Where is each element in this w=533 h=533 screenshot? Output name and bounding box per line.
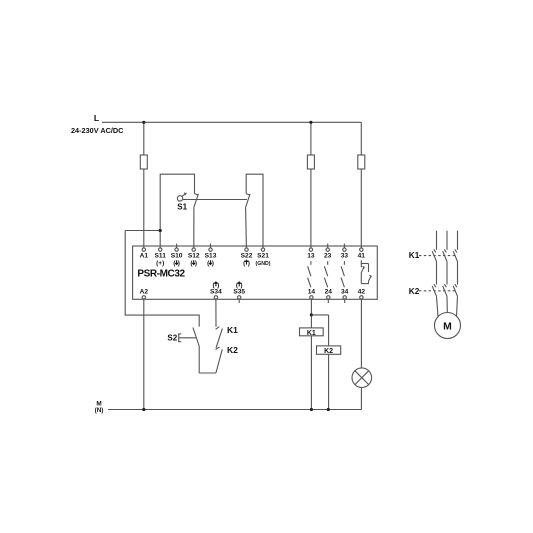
terminal 13 (309, 248, 312, 251)
switch S2 (reset button, NO) (193, 328, 199, 374)
node L (supply rail) (102, 121, 361, 123)
wire 41 supply drop (360, 122, 362, 248)
pin label S22 (up) (241, 252, 253, 267)
svg-text:): ) (178, 260, 180, 267)
svg-text:41: 41 (358, 252, 366, 259)
stub 24 bottom (327, 299, 329, 303)
pin label S35 (up) (233, 282, 245, 296)
pin label S21 (GND) (256, 252, 271, 267)
motor branch phase 1 middle (436, 262, 438, 285)
coil K2 (317, 346, 341, 355)
terminal S11 (159, 248, 162, 251)
svg-text:S11: S11 (155, 252, 167, 259)
svg-text:K1: K1 (227, 325, 238, 335)
motor branch phase 2 middle (446, 262, 448, 285)
svg-text:14: 14 (308, 289, 316, 296)
wire 13 supply drop (310, 122, 312, 248)
svg-text:): ) (195, 260, 197, 267)
internal contact 33-34 (341, 261, 344, 287)
terminal 34 (343, 296, 346, 299)
svg-text:13: 13 (307, 252, 315, 259)
terminal 41 (360, 248, 363, 251)
svg-text:(+): (+) (156, 260, 164, 267)
fuse F2 (13 branch) (307, 155, 314, 169)
switch S1 contact a (key operated, to S12) (194, 194, 199, 248)
lamp H1 (indicator) (352, 368, 372, 388)
svg-text:S35: S35 (233, 289, 245, 296)
terminal S34 (214, 296, 217, 299)
mechanical link K1 dashed (419, 255, 456, 257)
motor M1 (435, 313, 461, 339)
wire S11 loop to S1 contact a (160, 174, 194, 248)
relay box PSR-MC32 (133, 246, 378, 299)
motor feed phase 2 lower (446, 296, 448, 312)
switch S1 contact b (key operated, to S22) (246, 194, 251, 248)
wire S21 loop to S1 contact b (246, 174, 263, 248)
motor branch phase 3 upper (457, 231, 459, 250)
mechanical link S1 to contacts (183, 199, 247, 201)
stub 34 bottom (344, 299, 346, 303)
node N label M (N) (95, 401, 104, 415)
svg-text:S13: S13 (205, 252, 217, 259)
wire 14 to N rail (310, 299, 312, 410)
mechanical link K2 dashed (419, 290, 456, 292)
terminal 24 (327, 296, 330, 299)
junction on L rail at 13 wire (309, 121, 312, 124)
wire A1 supply drop (143, 122, 145, 248)
svg-text:24-230V AC/DC: 24-230V AC/DC (71, 126, 124, 135)
coil K1 (300, 328, 324, 337)
internal contact 41-42 (NC feedback, double break) (361, 260, 371, 283)
motor branch phase 3 middle (457, 262, 459, 285)
stub 33 top (343, 244, 345, 248)
pin label S13 (down) (205, 252, 217, 267)
contact K1 feedback (NC in series) (216, 327, 223, 348)
contact K2 feedback (NC in series) (216, 347, 223, 373)
contact K1 main pole 2 (443, 249, 447, 261)
internal contact 23-24 (324, 261, 327, 287)
wire S11 junction to reset branch (125, 231, 199, 327)
terminal S10 (175, 248, 178, 251)
fuse F3 (41 branch) (358, 155, 365, 169)
motor branch phase 2 upper (446, 231, 448, 250)
node N rail (M/N return) (108, 409, 361, 411)
wire A2 to N rail (143, 299, 145, 410)
pin label S11 (+) (155, 252, 167, 267)
junction on S11 wire (159, 229, 162, 232)
junction on L rail at A1 wire (142, 121, 145, 124)
terminal S35 (238, 296, 241, 299)
svg-text:L: L (94, 113, 99, 123)
key actuator S1 symbol (177, 193, 186, 201)
terminal 23 (326, 248, 329, 251)
svg-text:K1: K1 (307, 330, 316, 337)
svg-text:S22: S22 (241, 252, 253, 259)
stub S10 (176, 244, 178, 248)
junction N rail at A2 (142, 408, 145, 411)
wire lamp to N rail (360, 388, 362, 410)
wire feedback chain to S34 (215, 299, 217, 327)
svg-text:(N): (N) (95, 407, 104, 414)
svg-text:23: 23 (324, 252, 332, 259)
terminal S21 (261, 248, 264, 251)
contact K2 main pole 2 (443, 284, 447, 296)
wire 42 to lamp (360, 299, 362, 368)
motor feed phase 1 lower (437, 296, 439, 316)
wire S2 to feedback contacts (199, 372, 216, 374)
contact K2 main pole 1 (432, 284, 436, 296)
terminal 14 (310, 296, 313, 299)
svg-text:): ) (212, 260, 214, 267)
svg-text:(GND): (GND) (256, 261, 271, 267)
motor branch phase 1 upper (436, 231, 438, 250)
svg-text:S1: S1 (177, 203, 187, 212)
svg-text:S10: S10 (171, 252, 183, 259)
pin label S12 (down) (188, 252, 200, 267)
terminal S22 (245, 248, 248, 251)
pin label S34 (up) (210, 282, 222, 296)
stub S35 (238, 299, 240, 303)
svg-text:42: 42 (358, 289, 366, 296)
svg-text:S34: S34 (210, 289, 222, 296)
svg-text:PSR-MC32: PSR-MC32 (137, 268, 185, 279)
terminal S13 (209, 248, 212, 251)
terminal A2 (142, 296, 145, 299)
terminal A1 (142, 248, 145, 251)
svg-text:33: 33 (341, 252, 349, 259)
svg-text:K1: K1 (409, 251, 420, 260)
terminal S12 (192, 248, 195, 251)
svg-text:S21: S21 (257, 252, 269, 259)
svg-text:S2: S2 (167, 334, 177, 343)
terminal 33 (343, 248, 346, 251)
internal contact 13-14 (308, 261, 311, 287)
svg-text:K2: K2 (409, 287, 420, 296)
stub 23 top (327, 244, 329, 248)
svg-text:S12: S12 (188, 252, 200, 259)
pin label S10 (down) (171, 252, 183, 267)
contact K2 main pole 3 (453, 284, 457, 296)
contact K1 main pole 3 (453, 249, 457, 261)
svg-text:34: 34 (341, 289, 349, 296)
branch wire to K2 coil (311, 315, 328, 410)
terminal 42 (360, 296, 363, 299)
svg-text:A2: A2 (140, 289, 149, 296)
motor feed phase 3 lower (457, 296, 458, 316)
junction N rail at K1 (310, 408, 313, 411)
junction on 14 wire (310, 313, 313, 316)
contact K1 main pole 1 (432, 249, 436, 261)
stub S13 (210, 244, 212, 248)
junction N rail at K2 (327, 408, 330, 411)
svg-text:K2: K2 (227, 345, 238, 355)
svg-text:24: 24 (325, 289, 333, 296)
svg-text:K2: K2 (324, 348, 333, 355)
fuse F1 (A1 branch) (140, 155, 147, 169)
svg-text:M: M (443, 321, 452, 332)
svg-text:A1: A1 (140, 252, 149, 259)
S2 push actuator (179, 334, 197, 342)
